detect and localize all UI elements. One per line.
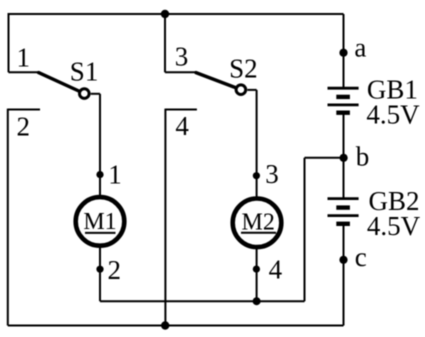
junction dot bottom (contact 4 net) bbox=[161, 321, 169, 329]
svg-text:4.5V: 4.5V bbox=[366, 99, 420, 129]
GB2 plate short (-) bbox=[336, 222, 350, 226]
svg-text:M1: M1 bbox=[83, 209, 116, 235]
GB2 plate long (+) bbox=[328, 214, 359, 217]
wire bottom horizontal (node c net) bbox=[8, 325, 344, 327]
svg-text:4.5V: 4.5V bbox=[367, 211, 421, 241]
node a (dot) bbox=[339, 49, 347, 57]
svg-text:4: 4 bbox=[175, 111, 189, 141]
wire node b to battery GB2 bbox=[343, 158, 345, 198]
svg-text:2: 2 bbox=[17, 111, 31, 141]
svg-text:S2: S2 bbox=[229, 53, 258, 83]
wire S1 pole to M1 lead bbox=[91, 93, 100, 95]
svg-text:1: 1 bbox=[17, 43, 31, 73]
switch S2 blade bbox=[196, 73, 235, 88]
wire contact 4 stub bbox=[165, 109, 197, 111]
wire contact 4 frame vertical bbox=[164, 109, 166, 326]
wire M1 lower lead bbox=[99, 246, 101, 302]
svg-text:2: 2 bbox=[108, 255, 122, 285]
wire battery GB1 to node b bbox=[343, 114, 345, 158]
motor M1 bbox=[76, 197, 125, 246]
M2 underline bbox=[241, 232, 276, 234]
switch S2 pole circle bbox=[236, 85, 246, 95]
wire battery GB2 to bottom wire bbox=[343, 225, 345, 326]
wire S2 pole to M2 lead bbox=[247, 89, 256, 91]
GB1 plate long (+) bbox=[328, 104, 359, 107]
node junction top (dot) bbox=[161, 10, 169, 18]
svg-text:b: b bbox=[356, 142, 370, 172]
node c (dot) bbox=[339, 256, 347, 264]
terminal dot 1 of M1 bbox=[96, 171, 103, 178]
motor M2 bbox=[233, 199, 282, 248]
battery GB1 bbox=[328, 88, 359, 113]
wire M2 upper lead bbox=[256, 90, 258, 199]
wire node b branch vertical bbox=[304, 158, 306, 301]
junction dot M2 return bbox=[253, 297, 261, 305]
GB1 plate short (-) bbox=[336, 110, 350, 114]
wire contact 2 stub bbox=[8, 109, 40, 111]
svg-text:4: 4 bbox=[269, 254, 283, 284]
wire motor-return horizontal to node b branch bbox=[100, 300, 305, 302]
wire contact 3 stub bbox=[165, 71, 196, 73]
terminal dot 2 of M1 bbox=[96, 266, 103, 273]
terminal dot 3 of M2 bbox=[253, 172, 260, 179]
wire node b branch horizontal bbox=[305, 157, 344, 159]
M1 underline bbox=[85, 232, 116, 234]
switch S1 blade bbox=[39, 73, 79, 91]
GB2 plate long (+) bbox=[328, 197, 359, 200]
wire mid vertical to contact 3 bbox=[164, 14, 166, 72]
terminal dot 4 of M2 bbox=[253, 266, 260, 273]
battery GB2 bbox=[328, 199, 359, 224]
wire contact 1 stub bbox=[9, 71, 39, 73]
wire contact 2 frame vertical bbox=[7, 109, 9, 326]
svg-text:c: c bbox=[355, 242, 367, 272]
svg-text:S1: S1 bbox=[70, 57, 99, 87]
svg-text:M2: M2 bbox=[242, 209, 275, 235]
wire left vertical to contact 1 bbox=[8, 13, 10, 72]
GB1 plate long (+) bbox=[328, 87, 359, 90]
GB2 plate short (-) bbox=[336, 205, 350, 209]
svg-text:a: a bbox=[354, 33, 366, 63]
switch S1 pole circle bbox=[80, 89, 90, 99]
svg-text:1: 1 bbox=[108, 159, 122, 189]
node b (dot) bbox=[340, 154, 348, 162]
wire M2 lower lead bbox=[256, 247, 258, 301]
wire right vertical (a to battery GB1) bbox=[343, 14, 345, 87]
svg-text:3: 3 bbox=[265, 159, 279, 189]
wire M1 upper lead bbox=[99, 94, 101, 198]
svg-text:3: 3 bbox=[175, 41, 189, 71]
wire top horizontal (node a net) bbox=[9, 13, 344, 15]
GB1 plate short (-) bbox=[336, 95, 350, 99]
